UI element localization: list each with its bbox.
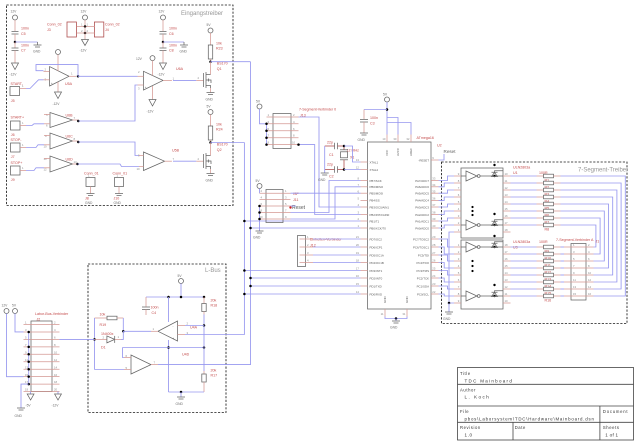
svg-text:13: 13: [505, 193, 509, 197]
wire J7 to U6C: [26, 145, 44, 148]
wire PA4 to U1 pin 6: [439, 197, 455, 200]
svg-text:31: 31: [402, 312, 406, 316]
svg-text:XTAL2: XTAL2: [370, 168, 379, 172]
supply -12V arrow (C8): [158, 63, 167, 77]
svg-text:35: 35: [432, 189, 436, 193]
resistor R11 100R: [511, 259, 561, 267]
svg-text:10: 10: [292, 141, 296, 145]
svg-text:20: 20: [54, 388, 58, 392]
svg-text:GND: GND: [15, 414, 23, 418]
wire J6 to U6B: [26, 124, 44, 126]
crystal X1 12MHz: [340, 146, 359, 170]
svg-text:R6: R6: [545, 213, 550, 217]
svg-text:18: 18: [54, 380, 58, 384]
svg-text:Conn_02: Conn_02: [47, 23, 62, 27]
svg-text:PB1/T1: PB1/T1: [370, 219, 380, 223]
node J2 tie 354: [27, 353, 30, 356]
svg-text:16: 16: [356, 274, 360, 278]
wire R7 to J1: [561, 218, 601, 254]
node J2 tie 376: [27, 375, 30, 378]
wire R8 to J1: [561, 225, 596, 247]
wire XTAL1: [344, 146, 361, 162]
wire R16 to J1: [561, 295, 565, 297]
wire AVCC: [387, 118, 398, 135]
svg-text:GND: GND: [114, 201, 122, 205]
resistor R14 100R: [511, 280, 561, 288]
svg-text:1 of 1: 1 of 1: [605, 433, 618, 438]
wire AREF: [387, 123, 411, 135]
node J11 pin10: [258, 218, 261, 221]
resistor R5 100R: [511, 202, 561, 210]
wire ISP MISO: [291, 187, 361, 219]
wire U6B out to U6A pin3: [78, 85, 137, 121]
svg-text:12V: 12V: [136, 57, 143, 61]
wire PA7 to U1 pin 9: [439, 176, 455, 181]
wire R13 to J1: [561, 274, 565, 276]
wire J11 GND tie: [259, 206, 261, 231]
svg-text:12V: 12V: [159, 10, 166, 14]
svg-text:Conn_02: Conn_02: [105, 23, 120, 27]
wire ISP SCK: [291, 181, 361, 213]
svg-text:11: 11: [505, 179, 508, 183]
node 5V/C4: [180, 296, 183, 299]
svg-text:22p: 22p: [327, 163, 333, 167]
wire ISP MOSI: [291, 192, 361, 194]
svg-text:ISP: ISP: [293, 192, 299, 196]
op-amp U6C: [44, 133, 79, 149]
node J3/J4 pin2: [84, 32, 87, 35]
svg-text:PB4/SS: PB4/SS: [370, 199, 380, 203]
svg-text:10k: 10k: [216, 123, 222, 127]
supply 12V (J3/J4 rail): [81, 10, 88, 27]
ground GND (Q2): [206, 174, 215, 183]
node Reset marker: [289, 206, 291, 208]
svg-text:R14: R14: [545, 284, 552, 288]
op-amp U4D: [124, 353, 190, 375]
wire V2 branch INT1: [244, 270, 360, 272]
wire R19 left / bus column: [94, 318, 96, 370]
svg-text:PA2/ADC2: PA2/ADC2: [415, 213, 429, 217]
svg-text:PB0/XCK/T0: PB0/XCK/T0: [370, 226, 387, 230]
supply 12V (J2): [2, 304, 24, 377]
node Q1 drain: [209, 60, 212, 63]
wire V2 branch RXD: [244, 293, 360, 295]
svg-text:Einheiten-Verbinder: Einheiten-Verbinder: [310, 238, 342, 242]
supply 12V (C6 rail): [159, 10, 166, 32]
node J13 pin9: [265, 143, 268, 146]
svg-text:R10: R10: [545, 256, 552, 260]
resistor R12 100R: [511, 266, 561, 274]
svg-text:14: 14: [505, 200, 509, 204]
resistor R23 10k: [208, 42, 222, 62]
wire 12V to -12V arrow: [84, 27, 86, 40]
svg-text:Sheets: Sheets: [603, 425, 620, 430]
svg-text:37: 37: [432, 203, 436, 207]
svg-text:Reset: Reset: [444, 149, 457, 154]
svg-text:R9: R9: [545, 249, 550, 253]
node V2/INT1: [243, 269, 246, 272]
wire U4D pin6 to Vref: [123, 348, 125, 358]
supply 5V (J2): [12, 304, 24, 332]
node V2/RXD: [243, 293, 246, 296]
ground GND (C3): [358, 133, 369, 142]
svg-text:15: 15: [505, 264, 509, 268]
svg-text:32: 32: [406, 137, 410, 141]
svg-text:100n: 100n: [21, 27, 29, 31]
svg-text:+: +: [145, 85, 147, 89]
svg-text:15: 15: [505, 207, 509, 211]
node J2 tie 369: [27, 368, 30, 371]
svg-text:11: 11: [381, 312, 384, 316]
wire PA2 to U1 pin 4: [439, 211, 455, 215]
svg-text:XTAL1: XTAL1: [370, 160, 379, 164]
svg-text:ULN2803a: ULN2803a: [513, 166, 530, 170]
wire U5A feedback: [36, 65, 78, 77]
svg-text:15: 15: [356, 282, 360, 286]
node X1/C1: [343, 145, 346, 148]
svg-text:J1: J1: [596, 240, 600, 244]
svg-text:+: +: [51, 81, 53, 85]
wire R19 right to node: [122, 318, 124, 331]
resistor R2 100R: [511, 181, 561, 189]
supply 12V (U6A): [136, 56, 155, 76]
supply -12V arrow (J2 pin20): [52, 392, 62, 408]
svg-text:28: 28: [432, 243, 436, 247]
node J2 tie 331: [27, 331, 30, 334]
wire U5A out to U6A in: [78, 75, 138, 77]
resistor R6 100R: [511, 209, 561, 217]
svg-text:16: 16: [588, 292, 592, 296]
node Vref/R17: [203, 346, 206, 349]
node X1/C2: [343, 168, 346, 171]
svg-text:PC3/TMS: PC3/TMS: [416, 269, 429, 273]
wire J12 pin1 to PD7: [313, 238, 361, 240]
wire J13 pin2 to PB2: [299, 117, 361, 207]
node U5A output: [77, 75, 80, 78]
svg-text:12V: 12V: [81, 10, 88, 14]
wire J12 pin4 to PD4: [313, 262, 361, 264]
svg-text:PC1/SDA: PC1/SDA: [417, 284, 429, 288]
svg-text:File: File: [460, 409, 469, 414]
connector Einheiten-Verbinder J12: [298, 235, 343, 267]
wire R3 to J1: [561, 190, 617, 282]
svg-text:12: 12: [54, 358, 58, 362]
node V1/TXD: [249, 285, 252, 288]
node GND tap: [180, 391, 183, 394]
wire node to U4A pin1: [123, 330, 151, 332]
wire PC6 to U3 pin 2: [439, 247, 455, 254]
svg-text:13: 13: [44, 157, 48, 161]
wire R6 to J1: [561, 211, 605, 261]
section box L-Bus: [88, 264, 226, 413]
svg-text:R13: R13: [545, 277, 552, 281]
svg-text:C3: C3: [370, 122, 375, 126]
wire J2 to L-Bus: [60, 338, 95, 340]
resistor R24 10k: [208, 123, 222, 143]
svg-text:GND: GND: [253, 236, 261, 240]
wire Vref rail: [123, 347, 205, 349]
svg-text:7-Segment-Verbinder 0: 7-Segment-Verbinder 0: [299, 108, 336, 112]
svg-text:C4: C4: [152, 311, 157, 315]
svg-text:16: 16: [54, 373, 58, 377]
resistor R15 100R: [511, 287, 561, 295]
svg-text:12: 12: [356, 166, 360, 170]
ground GND (crystal): [318, 173, 329, 182]
svg-text:18: 18: [505, 243, 509, 247]
node J11 pin8: [258, 211, 261, 214]
ground GND (J2): [15, 408, 26, 418]
svg-text:C5: C5: [21, 32, 26, 36]
svg-text:U6D: U6D: [66, 158, 74, 162]
svg-text:33: 33: [432, 177, 436, 181]
ground GND (J10): [114, 194, 124, 206]
svg-text:C1: C1: [329, 153, 334, 157]
svg-text:C6: C6: [169, 32, 174, 36]
resistor R1 100R: [511, 174, 561, 182]
svg-text:18: 18: [356, 259, 360, 263]
ground GND (U2): [390, 319, 400, 330]
svg-text:1.0: 1.0: [465, 433, 473, 438]
svg-text:PA5/ADC5: PA5/ADC5: [415, 192, 429, 196]
svg-text:36: 36: [432, 197, 436, 201]
node R18/U4A pin2: [203, 324, 206, 327]
svg-text:D1: D1: [101, 346, 106, 350]
svg-text:GND: GND: [383, 296, 387, 304]
resistor R10 100R: [511, 252, 561, 260]
capacitor C6 100n: [160, 27, 178, 43]
wire J12 pin2 to PD6: [313, 246, 361, 248]
node VCC/C3: [386, 108, 389, 111]
svg-text:11: 11: [573, 278, 576, 282]
svg-text:GND: GND: [33, 50, 41, 54]
svg-text:GND: GND: [206, 179, 214, 183]
svg-text:20k: 20k: [211, 369, 217, 373]
connector Labor-Bus-Verbinder J2: [24, 312, 69, 392]
capacitor C8 100n: [160, 42, 178, 63]
capacitor C7 100n: [12, 42, 30, 63]
node U4A/Vref: [167, 346, 170, 349]
ground GND (C6 rail): [180, 42, 189, 54]
node GND tie: [448, 302, 451, 305]
connector START- J5: [10, 82, 26, 103]
supply 5V (J11): [256, 179, 263, 193]
wire PC1 to U3 pin 7: [439, 286, 455, 289]
wire PC7 to U3 pin 1: [439, 239, 455, 247]
svg-text:7-Segment-Treiber: 7-Segment-Treiber: [578, 168, 628, 174]
svg-text:J9: J9: [11, 178, 15, 182]
transistor Q2 BS170: [204, 143, 228, 174]
node C6/C8 junction: [162, 41, 165, 44]
wire PC3 to U3 pin 5: [439, 271, 455, 276]
svg-text:PA3/ADC3: PA3/ADC3: [415, 205, 429, 209]
svg-text:U6C: U6C: [66, 135, 74, 139]
svg-text:L. Koch: L. Koch: [465, 395, 491, 400]
resistor R8 100R: [511, 223, 561, 231]
node V1/T0: [249, 227, 252, 230]
node U6C output: [77, 141, 80, 144]
svg-text:21: 21: [356, 235, 360, 239]
svg-text:R11: R11: [545, 263, 551, 267]
svg-text:30: 30: [393, 137, 397, 141]
svg-text:Q1: Q1: [217, 67, 222, 71]
supply 12V (U5A): [56, 50, 61, 72]
jumper Conn_02 J4: [81, 22, 120, 37]
connector START+ J6: [11, 115, 27, 137]
wire PA3 to U1 pin 5: [439, 204, 455, 207]
svg-text:15: 15: [573, 292, 577, 296]
wire U4D pin5: [95, 369, 125, 371]
svg-text:-5V: -5V: [26, 404, 32, 408]
svg-text:PA6/ADC6: PA6/ADC6: [415, 185, 429, 189]
supply 5V (J13): [256, 100, 267, 124]
resistor R3 100R: [511, 188, 561, 196]
svg-text:17: 17: [505, 221, 509, 225]
svg-text:13: 13: [573, 285, 577, 289]
svg-text:13: 13: [356, 158, 360, 162]
wire J2 odd-pin tie: [28, 332, 30, 384]
wire U6C out to U5B: [78, 142, 139, 156]
wire J5 to U5A pin3: [26, 80, 44, 89]
wire U5B out to Q2 gate: [173, 160, 196, 162]
svg-text:18: 18: [505, 228, 509, 232]
node J13 pin3: [265, 123, 268, 126]
svg-text:34: 34: [432, 183, 436, 187]
svg-text:PC0/SCL: PC0/SCL: [417, 292, 429, 296]
svg-text:PB5/MOSI: PB5/MOSI: [370, 192, 384, 196]
svg-text:J8: J8: [85, 197, 89, 201]
svg-text:PB3/OC0/AIN1: PB3/OC0/AIN1: [370, 205, 390, 209]
svg-text:PB7/SCK: PB7/SCK: [370, 179, 382, 183]
wire R15 to J1: [561, 288, 565, 290]
wire R2 to J1: [561, 183, 622, 289]
svg-text:22: 22: [432, 290, 436, 294]
svg-text:PD3/INT1: PD3/INT1: [370, 269, 383, 273]
supply 5V (U2): [383, 93, 390, 135]
wire XTAL2: [344, 169, 361, 171]
ground GND (L-Bus): [176, 392, 186, 406]
svg-text:-12V: -12V: [147, 110, 155, 114]
capacitor C2 22p: [325, 163, 344, 179]
svg-text:PA1/ADC1: PA1/ADC1: [415, 219, 429, 223]
wire Q2 to bus: [211, 142, 245, 144]
svg-text:PD0/RXD: PD0/RXD: [370, 292, 383, 296]
svg-text:GND: GND: [180, 50, 188, 54]
svg-text:GND: GND: [405, 296, 409, 304]
wire PA6 to U1 pin 8: [439, 183, 455, 187]
node J13 pin7: [265, 136, 268, 139]
svg-text:U6A: U6A: [176, 67, 184, 71]
wire C1/C2 left tie: [324, 146, 326, 173]
node J3/J4 pin1: [84, 25, 87, 28]
op-amp U6B: [44, 113, 78, 128]
svg-text:U5A: U5A: [65, 82, 73, 86]
svg-text:11: 11: [505, 292, 508, 296]
wire bus V2 (Q2/T1/INT1/RXD/U4A): [185, 143, 244, 335]
node J2 tie 346: [27, 346, 30, 349]
svg-text:GND: GND: [358, 138, 366, 142]
node Q2 drain: [209, 141, 212, 144]
svg-text:AVCC: AVCC: [396, 147, 400, 156]
svg-text:R24: R24: [216, 128, 223, 132]
wire R1 to J1: [561, 176, 626, 296]
resistor R19 10k: [95, 313, 124, 328]
wire J9 to U6D: [26, 168, 44, 171]
node 5V/U4A: [167, 296, 170, 299]
wire R11 to J1: [561, 260, 565, 262]
wire U2 GND pins: [385, 317, 407, 319]
svg-text:PA4/ADC4: PA4/ADC4: [415, 199, 429, 203]
svg-text:VCC: VCC: [385, 149, 389, 156]
svg-text:40: 40: [432, 224, 436, 228]
wire R18 bottom to R17: [203, 326, 205, 372]
svg-text:-12V: -12V: [10, 73, 18, 77]
svg-text:25: 25: [432, 267, 436, 271]
supply -12V arrow (U5A): [53, 82, 62, 106]
node V1/INT0: [249, 277, 252, 280]
svg-text:16: 16: [505, 257, 509, 261]
wire bus V1 (Q1/T0/INT0/TXD/U4D): [158, 62, 251, 365]
wire V1 branch TXD: [251, 285, 361, 287]
svg-text:R3: R3: [545, 192, 550, 196]
wire U4A supply top: [168, 297, 170, 322]
svg-text:14: 14: [505, 271, 509, 275]
wire J2 GND stem: [21, 384, 29, 408]
wire J12 pin3 to PD5: [313, 254, 361, 256]
svg-text:U4A: U4A: [190, 326, 198, 330]
section box Eingangstreiber: [7, 5, 234, 206]
svg-text:R12: R12: [545, 270, 552, 274]
node 5V/R18: [203, 296, 206, 299]
svg-text:STOP+: STOP+: [11, 161, 23, 165]
svg-text:U2: U2: [437, 144, 442, 148]
wire to GND: [163, 41, 184, 43]
svg-text:10k: 10k: [100, 313, 106, 317]
resistor R13 100R: [511, 273, 561, 281]
svg-text:12: 12: [505, 186, 509, 190]
svg-text:19: 19: [356, 251, 360, 255]
svg-text:J3: J3: [47, 28, 51, 32]
svg-text:12: 12: [505, 285, 509, 289]
svg-text:-12V: -12V: [80, 49, 88, 53]
wire Q1 to bus: [211, 61, 251, 63]
wire U6D out to U5B: [78, 164, 140, 167]
wire R14 to J1: [561, 281, 565, 283]
svg-text:Q2: Q2: [217, 148, 222, 152]
svg-text:PD5/OC1A: PD5/OC1A: [370, 253, 384, 257]
svg-text:23: 23: [432, 282, 436, 286]
svg-text:12V: 12V: [11, 10, 18, 14]
wire R4 to J1: [561, 197, 613, 275]
wire PA1 to U1 pin 3: [439, 218, 455, 221]
wire PC2 to U3 pin 6: [439, 278, 455, 282]
svg-text:J10: J10: [114, 197, 120, 201]
svg-text:GND: GND: [206, 98, 214, 102]
microcontroller U2 ATmega16: [356, 135, 442, 317]
svg-text:STOP-: STOP-: [11, 138, 23, 142]
svg-text:AREF: AREF: [409, 148, 413, 156]
wire U4A pin2: [185, 325, 204, 327]
node J2 tie 384: [27, 383, 30, 386]
svg-text:Labor-Bus-Verbinder: Labor-Bus-Verbinder: [35, 312, 69, 316]
svg-text:R18: R18: [211, 304, 218, 308]
node V2/T1: [243, 220, 246, 223]
supply -12V arrow (C7): [10, 63, 19, 77]
node U6B output: [77, 120, 80, 123]
svg-text:7-Segment-Verbinder A: 7-Segment-Verbinder A: [556, 238, 594, 242]
svg-text:22p: 22p: [327, 141, 333, 145]
ground GND (Q1): [206, 93, 215, 102]
svg-text:R4: R4: [545, 199, 550, 203]
